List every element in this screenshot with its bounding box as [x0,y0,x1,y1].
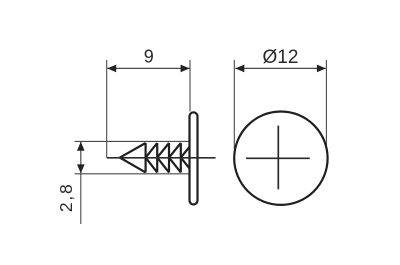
rivet barb 4 top edge [169,143,181,158]
dimension 2,8: bottom extension line [75,173,190,175]
rivet barb 4 back edge [180,143,182,172]
dimension 2,8: top extension line [75,140,190,142]
head front view circle [234,112,327,205]
rivet barb 3 bottom edge [157,158,169,173]
dimension Ø12: dimension line [235,67,326,69]
dimension 9: left extension line [106,60,108,158]
dimension Ø12: left extension line [233,60,235,149]
rivet barb 3 back edge [168,143,170,172]
dimension 2,8: top arrowhead [77,142,85,151]
centre cross horizontal [246,157,310,159]
rivet head (side view pill) [190,112,198,204]
dimension Ø12: right arrowhead [317,65,326,73]
dimension 9: dimension line [107,67,189,69]
dimension 9: right extension line [189,60,191,112]
dimension 2,8: dimension line tail [80,174,82,224]
dimension Ø12: left arrowhead [235,65,244,73]
dimension Ø12: right extension line [325,60,327,148]
rivet barb 2 bottom edge [146,158,158,173]
rivet cone tip [120,143,146,172]
rivet centre line [107,157,216,159]
rivet barb 4 bottom edge [169,158,181,173]
dimension 2,8: dimension line [80,142,82,174]
dimension 2,8: bottom arrowhead [77,164,85,173]
rivet barb 3 top edge [157,143,169,158]
rivet barb 5 top edge (cut by head) [181,147,190,158]
svg-text:2,8: 2,8 [56,182,76,212]
rivet barb 2 back edge [156,143,158,172]
rivet cone back edge [145,143,147,172]
rivet barb 5 bottom edge (cut by head) [181,158,190,169]
rivet barb 2 top edge [146,143,158,158]
svg-text:9: 9 [144,47,154,67]
dimension 9: left arrowhead [107,65,116,73]
svg-text:Ø12: Ø12 [263,47,299,68]
centre cross vertical [277,126,279,190]
dimension 9: right arrowhead [181,65,190,73]
